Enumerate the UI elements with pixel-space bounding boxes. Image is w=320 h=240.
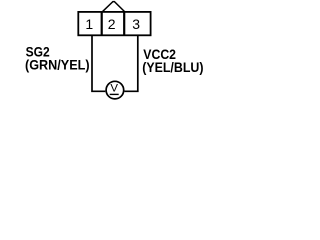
wire from pin 1 (SG2) down and right to voltmeter [92, 35, 105, 91]
connector keying notch (triangle) [102, 2, 125, 13]
svg-text:3: 3 [132, 16, 140, 32]
svg-text:(GRN/YEL): (GRN/YEL) [25, 57, 90, 73]
voltmeter underline [110, 93, 119, 95]
svg-text:1: 1 [85, 16, 93, 32]
pin 2 cavity right wall [123, 12, 125, 35]
svg-text:V: V [110, 83, 118, 95]
voltmeter M1 circle [106, 81, 124, 99]
svg-text:(YEL/BLU): (YEL/BLU) [142, 59, 203, 75]
wire from pin 3 (VCC2) down and left to voltmeter [125, 35, 138, 91]
pin 2 cavity left wall [101, 12, 103, 35]
connector J1 body (3-pin, terminal-side view) [78, 12, 150, 35]
svg-text:2: 2 [108, 16, 116, 32]
